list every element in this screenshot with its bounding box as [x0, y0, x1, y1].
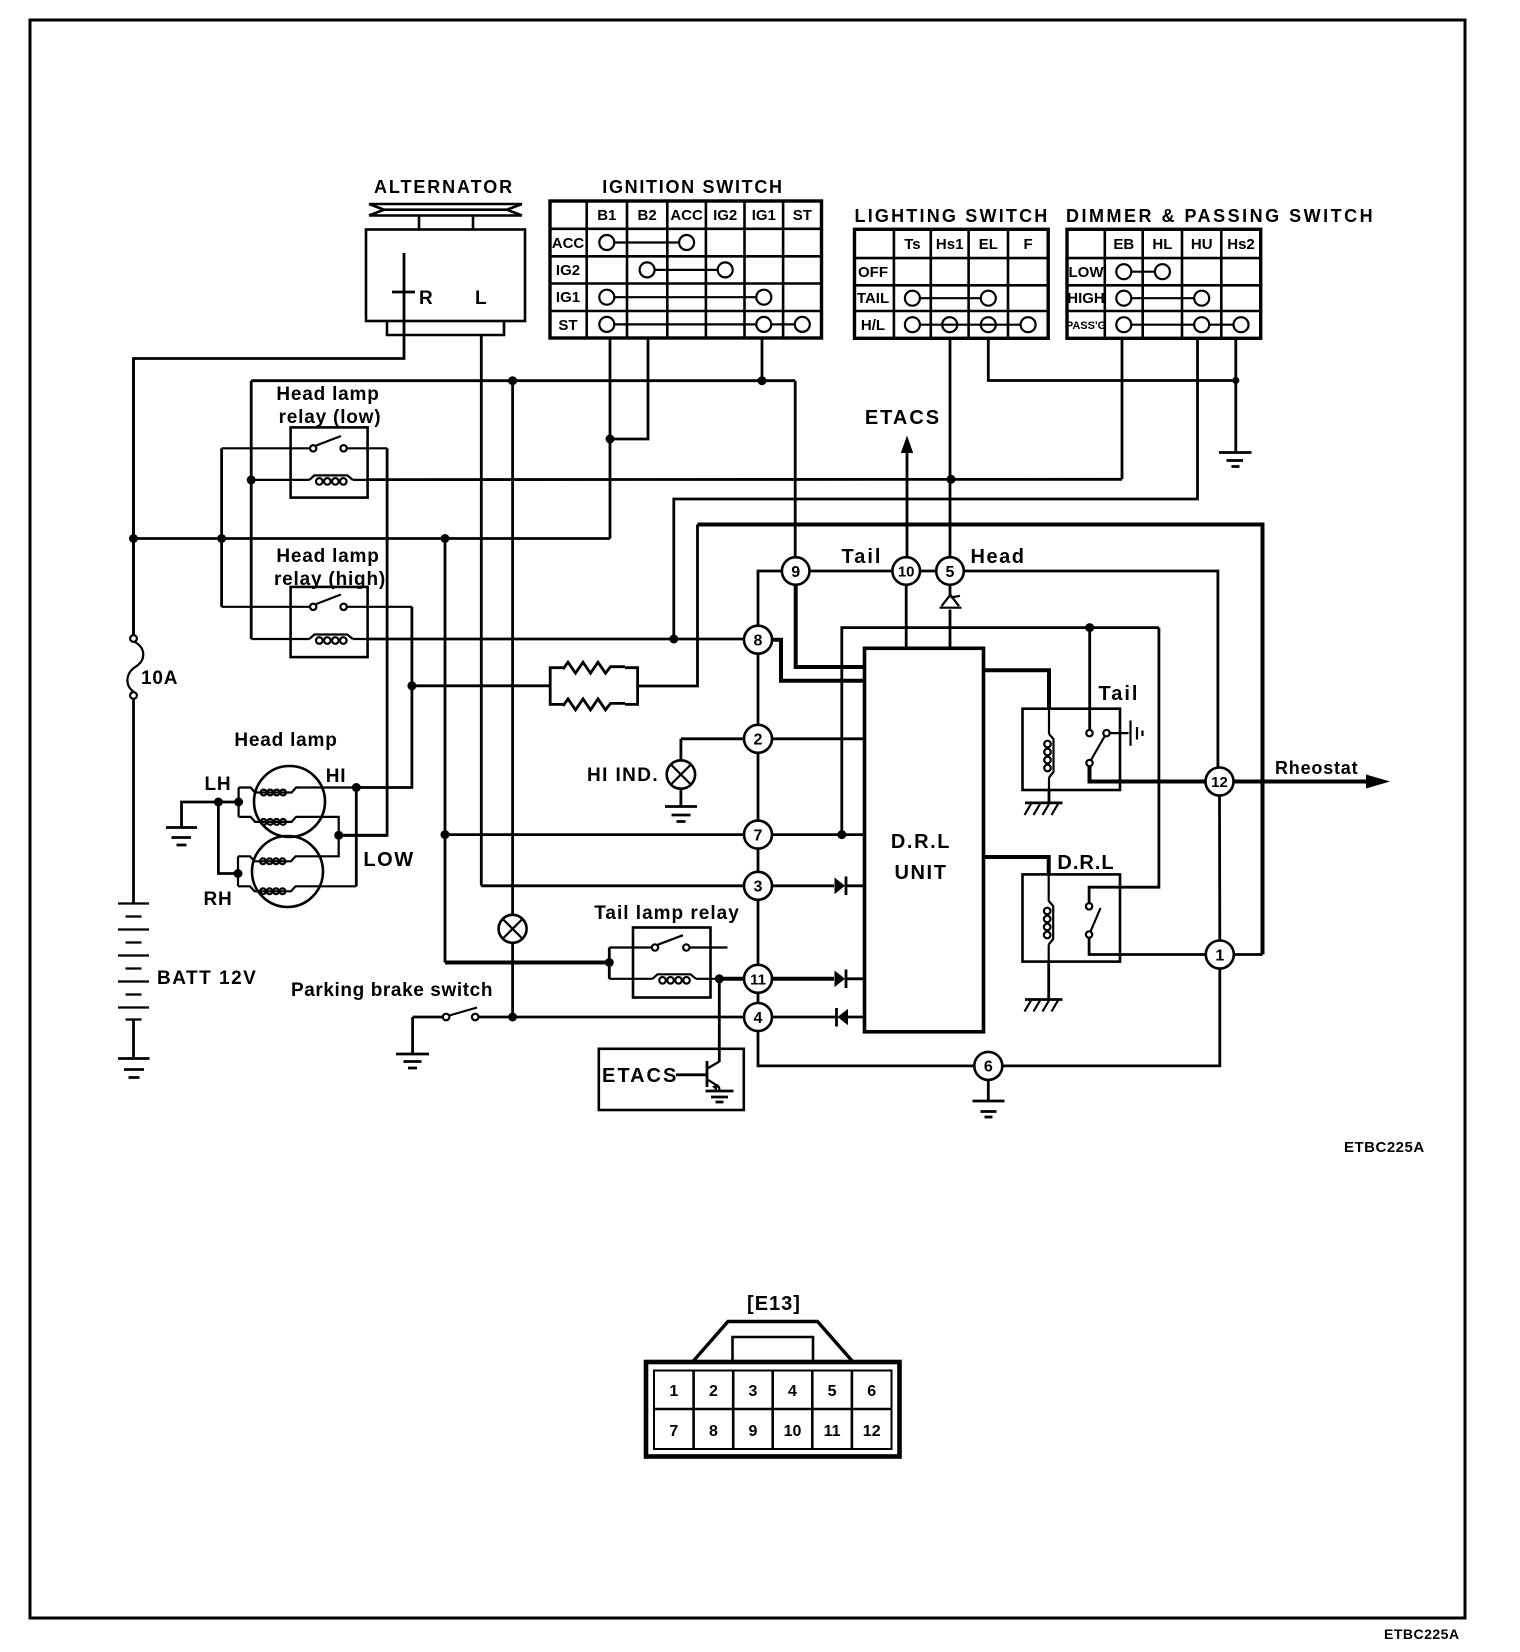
wire IG1 rail to relays and connector 9 — [251, 381, 795, 639]
wire DRL relay coil to ground — [1047, 962, 1050, 999]
svg-text:HU: HU — [1191, 236, 1213, 253]
svg-text:Head: Head — [971, 546, 1026, 568]
Rheostat arrow — [1234, 758, 1391, 789]
wire L terminal to connector 3 — [481, 884, 743, 887]
wire relay low output to LOW lamps — [339, 448, 387, 835]
alternator — [366, 177, 525, 339]
svg-text:F: F — [1024, 236, 1033, 253]
E13 latch tab — [733, 1337, 814, 1363]
wire alternator L down — [480, 335, 483, 886]
E13 shroud trapezoid — [692, 1322, 854, 1363]
wire tail relay coil to connector 11 — [716, 977, 744, 981]
head lamp RH — [238, 835, 356, 907]
connector circle 6 — [974, 1052, 1002, 1080]
svg-text:ETBC225A: ETBC225A — [1344, 1139, 1425, 1156]
svg-text:Hs1: Hs1 — [936, 236, 964, 253]
svg-text:Tail: Tail — [1099, 683, 1140, 705]
fuse 10A — [127, 635, 178, 699]
junction tail relay feed — [605, 958, 614, 967]
wire HI net to RH — [355, 788, 358, 887]
svg-text:10: 10 — [898, 564, 915, 581]
head lamp ground symbol — [166, 828, 197, 846]
junction RH rail — [234, 869, 243, 878]
E13 pin numbers row 2 — [669, 1423, 880, 1440]
wire Hs1 to connector 5 — [949, 338, 952, 557]
head lamp relay (high) — [222, 587, 412, 657]
ground Hs2 — [1219, 453, 1252, 467]
diode pin 4 — [837, 1008, 865, 1027]
wire unit to tail relay coil — [984, 670, 1050, 709]
diode head feed — [940, 585, 962, 649]
parking brake lamp — [499, 381, 527, 1017]
ground HI IND — [665, 807, 697, 822]
wire relay high coil to HU and connector 8 — [368, 638, 744, 641]
wire battery rail — [134, 359, 611, 637]
svg-text:2: 2 — [754, 732, 763, 749]
svg-text:ETACS: ETACS — [865, 407, 941, 429]
relay high coil — [251, 638, 367, 640]
svg-text:12: 12 — [863, 1423, 881, 1440]
ground parking brake — [396, 1054, 429, 1068]
tail relay coil — [609, 978, 716, 980]
svg-text:5: 5 — [828, 1383, 837, 1400]
tail lamp relay — [609, 928, 727, 998]
wire 1 to top rail — [1234, 953, 1263, 956]
wire ETACS transistor collector — [718, 979, 721, 1062]
connector E13 — [646, 1293, 900, 1457]
wire 11 to diode — [772, 977, 834, 981]
wire DRL relay output to connector 1 — [1089, 938, 1206, 955]
junction B1/B2 — [606, 435, 615, 444]
svg-text:5: 5 — [946, 564, 955, 581]
E13 pin grid — [654, 1371, 892, 1450]
svg-text:TAIL: TAIL — [857, 290, 889, 307]
wire 2 right to unit — [772, 737, 865, 740]
wire ignition B1 column down — [609, 338, 612, 539]
svg-text:ST: ST — [558, 317, 577, 334]
svg-text:HIGH: HIGH — [1067, 290, 1105, 307]
svg-text:4: 4 — [754, 1010, 763, 1027]
wire 8 to unit — [772, 640, 865, 681]
wire resistor left to HI net — [412, 684, 550, 687]
svg-text:HI: HI — [326, 766, 347, 787]
junction relay low coil rail to head net — [947, 475, 956, 484]
svg-text:Tail: Tail — [842, 546, 883, 568]
connector circle 12 — [1206, 768, 1234, 796]
svg-text:D.R.L: D.R.L — [891, 831, 951, 853]
wire 4 down to connector 6 — [758, 1031, 974, 1066]
junction lamp ground branch — [214, 798, 223, 807]
battery ground — [118, 1059, 150, 1078]
svg-text:1: 1 — [1215, 947, 1224, 964]
svg-text:10A: 10A — [141, 668, 178, 689]
ignition contacts IG2 row — [655, 269, 718, 271]
connector circle 11 — [744, 965, 772, 993]
alternator sub box — [387, 321, 504, 335]
svg-text:Head lamp: Head lamp — [234, 730, 337, 751]
ignition contacts ST row — [614, 323, 795, 325]
E13 pin numbers row 1 — [669, 1383, 876, 1400]
svg-text:4: 4 — [788, 1383, 797, 1400]
svg-text:6: 6 — [984, 1059, 993, 1076]
diode pin 11 — [835, 970, 865, 989]
connector circle 3 — [744, 872, 772, 900]
svg-text:EL: EL — [979, 236, 998, 253]
wire relay high output to HI lamps — [356, 607, 412, 788]
svg-text:IG2: IG2 — [556, 262, 580, 279]
RH left rail — [237, 856, 239, 886]
svg-text:ACC: ACC — [670, 207, 703, 224]
head lamp ground wire — [182, 802, 239, 827]
svg-text:R: R — [419, 288, 433, 309]
connector circle 4 — [744, 1003, 772, 1031]
svg-text:ACC: ACC — [552, 235, 585, 252]
wire 12 to 1 — [1218, 796, 1221, 941]
svg-text:Ts: Ts — [904, 236, 920, 253]
wire tail relay output to connector 12 — [1090, 766, 1206, 781]
svg-text:Hs2: Hs2 — [1227, 236, 1255, 253]
wire 7 net riser to relay contacts rail — [842, 628, 1159, 835]
ignition contacts ACC row — [614, 241, 679, 243]
wire fuse to battery — [132, 699, 135, 903]
junction tail relay coil to ETACS transistor — [715, 974, 724, 983]
battery BATT 12V — [118, 904, 257, 1078]
RH right rail — [308, 835, 356, 886]
connector circle 8 — [744, 626, 772, 654]
svg-text:10: 10 — [784, 1423, 802, 1440]
relay low switch contacts — [222, 436, 388, 448]
svg-text:L: L — [475, 288, 487, 309]
svg-text:IG1: IG1 — [556, 289, 580, 306]
ground DRL relay coil — [1025, 998, 1063, 1001]
svg-text:RH: RH — [203, 889, 232, 910]
wire 9 to 8 — [758, 571, 782, 626]
LH right rail — [309, 788, 357, 836]
tail lamp relay switch contacts — [609, 935, 727, 947]
svg-text:3: 3 — [754, 879, 763, 896]
connector chain 2-7 — [757, 753, 760, 821]
junction lamp to parking line — [508, 1013, 517, 1022]
ETACS transistor ground — [706, 1091, 734, 1102]
connector circle 1 — [1206, 941, 1234, 969]
svg-text:EB: EB — [1113, 236, 1134, 253]
junction IG1 rail to lamp branch — [508, 376, 517, 385]
svg-text:2: 2 — [709, 1383, 718, 1400]
svg-text:ETACS: ETACS — [602, 1065, 678, 1087]
ignition contacts IG1 row — [614, 296, 756, 298]
connector circle 9 — [782, 557, 810, 585]
HI IND lamp — [587, 739, 697, 822]
tail relay switch — [1086, 730, 1092, 736]
svg-text:LH: LH — [205, 774, 232, 795]
dimmer contacts HIGH row — [1131, 297, 1194, 299]
wire battery feed to connector 7 — [444, 539, 447, 963]
parking brake switch — [396, 1008, 744, 1069]
svg-text:IGNITION SWITCH: IGNITION SWITCH — [602, 177, 784, 197]
svg-text:Rheostat: Rheostat — [1275, 758, 1358, 778]
wire 3 to diode — [772, 884, 834, 887]
svg-text:7: 7 — [754, 828, 763, 845]
svg-text:LIGHTING SWITCH: LIGHTING SWITCH — [855, 206, 1050, 226]
lighting contacts TAIL row — [920, 297, 981, 299]
wire DRL relay common from rail — [1089, 628, 1159, 904]
wire tail relay coil to ground — [1048, 790, 1051, 802]
alternator R terminal cross — [392, 253, 415, 339]
junction battery feed to connector 7 wire — [441, 830, 450, 839]
junction IG1 feed — [758, 376, 767, 385]
wire ground branch to RH — [218, 802, 238, 874]
lighting switch table — [855, 206, 1050, 338]
wire ignition B2 column down — [610, 338, 648, 439]
wire net connector 1 top rail — [698, 525, 1263, 955]
RH HI filament — [238, 886, 308, 894]
junction HI wire to resistor — [407, 681, 416, 690]
dimmer and passing switch table — [1066, 206, 1375, 338]
svg-text:8: 8 — [754, 633, 763, 650]
tail relay switch NC to ground — [1110, 721, 1143, 746]
svg-text:3: 3 — [748, 1383, 757, 1400]
wire 2 left to HI IND — [681, 737, 744, 740]
junction battery rail to tail feed — [441, 534, 450, 543]
diode pin 3 — [835, 877, 865, 896]
svg-text:Tail lamp relay: Tail lamp relay — [594, 903, 740, 924]
svg-text:11: 11 — [750, 971, 766, 988]
resistor R bottom — [563, 699, 625, 710]
wire Hs2 to ground — [1234, 338, 1237, 452]
svg-text:ALTERNATOR: ALTERNATOR — [374, 177, 514, 197]
tail relay coil vertical — [1048, 709, 1050, 790]
wire HU riser — [674, 338, 1198, 639]
svg-text:B1: B1 — [597, 207, 616, 224]
wire EB column down — [1121, 338, 1124, 479]
svg-text:IG1: IG1 — [752, 207, 776, 224]
svg-text:9: 9 — [791, 564, 800, 581]
svg-text:8: 8 — [709, 1423, 718, 1440]
junction LOW lamps — [334, 831, 343, 840]
dimmer contacts PASS'G row — [1131, 324, 1233, 326]
connector chain 3-11 — [757, 900, 760, 965]
ETACS box — [599, 1049, 744, 1110]
svg-text:Head lamp: Head lamp — [276, 384, 379, 405]
svg-text:HI IND.: HI IND. — [587, 765, 659, 786]
junction HI net — [352, 783, 361, 792]
svg-text:BATT 12V: BATT 12V — [157, 968, 257, 989]
junction lamp ground LH — [234, 798, 243, 807]
connector chain 11-4 — [757, 993, 760, 1003]
svg-text:DIMMER & PASSING SWITCH: DIMMER & PASSING SWITCH — [1066, 206, 1375, 226]
svg-text:LOW: LOW — [363, 849, 414, 871]
svg-text:[E13]: [E13] — [747, 1293, 801, 1315]
wire tail relay common from rail — [1088, 628, 1091, 730]
connector circle 5 — [936, 557, 964, 585]
wire 9 to 10 to 5 — [810, 570, 937, 573]
svg-text:ST: ST — [793, 207, 812, 224]
wire 9 to unit — [796, 585, 865, 667]
ground connector 6 — [973, 1080, 1005, 1117]
head lamp relay (low) — [222, 427, 388, 497]
RH LOW filament — [238, 856, 308, 864]
svg-text:ETBC225A: ETBC225A — [1384, 1626, 1460, 1642]
svg-text:UNIT: UNIT — [894, 862, 947, 884]
junction relay low coil to IG1 riser — [247, 475, 256, 484]
junction battery rail left — [129, 534, 138, 543]
svg-text:7: 7 — [669, 1423, 678, 1440]
junction relay contact rail to tail relay switch — [1085, 623, 1094, 632]
junction EL/Hs2 — [1232, 377, 1239, 384]
LH left rail — [238, 788, 240, 817]
junction coil-8 wire to HU riser — [669, 635, 678, 644]
head lamp LH — [239, 766, 357, 837]
resistor pair — [412, 525, 698, 710]
svg-text:HL: HL — [1152, 236, 1172, 253]
svg-text:PASS'G: PASS'G — [1066, 320, 1106, 332]
connector circle 10 — [892, 557, 920, 585]
D.R.L UNIT box — [865, 648, 984, 1032]
svg-text:IG2: IG2 — [713, 207, 737, 224]
tail relay (right) — [1023, 628, 1206, 815]
connector circle 2 — [744, 725, 772, 753]
svg-text:11: 11 — [824, 1423, 841, 1440]
wire resistor right to connector 1 net — [638, 525, 698, 687]
LH LOW filament — [239, 817, 309, 825]
svg-text:relay (low): relay (low) — [279, 407, 382, 428]
svg-text:D.R.L: D.R.L — [1057, 852, 1114, 874]
connector chain 7-3 — [757, 849, 760, 872]
svg-text:1: 1 — [669, 1383, 678, 1400]
DRL relay coil vertical — [1048, 874, 1050, 961]
wire 5 right to connector 12 — [964, 571, 1218, 767]
ground tail relay coil — [1025, 802, 1063, 805]
resistor R top — [563, 662, 625, 673]
DRL relay — [1023, 628, 1206, 1012]
svg-text:LOW: LOW — [1069, 264, 1105, 281]
svg-text:9: 9 — [748, 1423, 757, 1440]
ETACS transistor — [676, 1073, 707, 1076]
wire 7 right to unit — [772, 833, 865, 836]
DRL relay switch — [1086, 903, 1092, 909]
relay high switch contacts — [222, 595, 412, 607]
svg-text:Parking brake switch: Parking brake switch — [291, 980, 493, 1001]
wire battery feed to tail lamp relay — [445, 961, 609, 965]
connector circle 7 — [744, 821, 772, 849]
svg-text:Head lamp: Head lamp — [276, 546, 379, 567]
wire 4 to diode — [772, 1016, 835, 1019]
svg-text:12: 12 — [1211, 774, 1228, 791]
wire 10 down to unit — [905, 585, 908, 649]
svg-text:B2: B2 — [638, 207, 657, 224]
junction battery rail to relay contacts — [217, 534, 226, 543]
alternator pulley — [369, 204, 522, 216]
E13 body — [646, 1362, 900, 1457]
connector chain 8-2 — [757, 654, 760, 725]
wire alternator R to left bus — [134, 339, 405, 636]
lighting contacts H/L row — [920, 324, 1021, 326]
relay low coil — [251, 479, 367, 481]
wire ignition IG1 column down — [761, 338, 764, 381]
alternator body — [366, 230, 525, 322]
LH HI filament — [239, 788, 309, 796]
alternator shaft — [419, 217, 473, 230]
wire EL to ground rail — [988, 338, 1236, 380]
wire relay contacts common riser — [220, 448, 223, 607]
junction 7 net riser — [837, 830, 846, 839]
wire head net / relay low coil rail — [368, 478, 1122, 481]
svg-text:H/L: H/L — [861, 317, 885, 334]
wire unit to DRL relay coil — [984, 857, 1049, 874]
svg-text:6: 6 — [867, 1383, 876, 1400]
ignition switch table — [550, 177, 822, 338]
wire 6 to connector 1 net — [1003, 968, 1220, 1066]
svg-text:OFF: OFF — [858, 264, 888, 281]
ETACS arrow — [865, 407, 941, 557]
dimmer contacts LOW row — [1131, 271, 1155, 273]
